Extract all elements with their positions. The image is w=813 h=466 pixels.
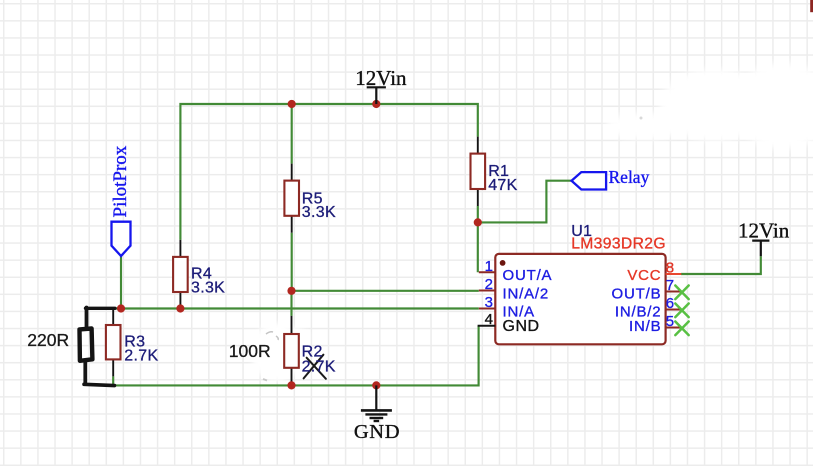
svg-text:GND: GND	[354, 421, 400, 443]
svg-text:LM393DR2G: LM393DR2G	[571, 235, 666, 252]
svg-text:1: 1	[485, 258, 493, 275]
svg-text:6: 6	[666, 295, 674, 312]
svg-text:7: 7	[666, 277, 674, 294]
svg-text:4: 4	[485, 311, 493, 328]
svg-text:OUT/B: OUT/B	[612, 285, 662, 302]
svg-text:8: 8	[666, 260, 674, 277]
svg-text:OUT/A: OUT/A	[503, 267, 553, 284]
svg-text:PilotProx: PilotProx	[110, 145, 131, 217]
svg-text:IN/A/2: IN/A/2	[503, 285, 549, 302]
svg-text:47K: 47K	[488, 177, 517, 194]
svg-text:Relay: Relay	[609, 167, 650, 187]
svg-text:220R: 220R	[27, 330, 69, 350]
svg-text:IN/B: IN/B	[629, 318, 661, 335]
svg-text:12Vin: 12Vin	[355, 66, 407, 90]
svg-text:GND: GND	[503, 318, 540, 335]
svg-text:3.3K: 3.3K	[302, 204, 336, 221]
svg-text:2: 2	[485, 276, 493, 293]
svg-text:2.7K: 2.7K	[124, 348, 158, 365]
svg-text:12Vin: 12Vin	[738, 218, 790, 242]
svg-text:100R: 100R	[229, 341, 271, 361]
svg-text:VCC: VCC	[627, 267, 661, 284]
svg-text:3.3K: 3.3K	[191, 279, 225, 296]
svg-text:3: 3	[485, 294, 493, 311]
svg-text:5: 5	[666, 313, 674, 330]
svg-text:2.7K: 2.7K	[302, 358, 336, 375]
